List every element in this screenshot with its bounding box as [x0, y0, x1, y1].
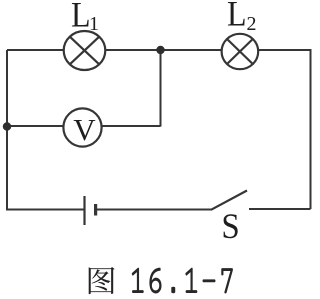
svg-text:2: 2	[247, 13, 257, 35]
battery cell: short plate	[94, 204, 97, 216]
node B junction dot	[3, 122, 11, 130]
node A junction dot	[156, 46, 164, 54]
wire right rail	[310, 49, 312, 209]
lamp L2	[222, 34, 259, 69]
voltmeter V	[63, 108, 101, 146]
wire: switch pivot to battery	[97, 209, 212, 211]
wire bottom-left: battery to left rail	[6, 209, 84, 211]
switch S arm	[211, 191, 247, 210]
svg-text:S: S	[221, 207, 239, 247]
wire mid riser: node A down to voltmeter branch	[160, 50, 162, 127]
svg-text:V: V	[73, 112, 96, 147]
wire: left rail to voltmeter	[7, 125, 64, 127]
wire: voltmeter to mid riser	[102, 125, 161, 127]
lamp L1	[64, 31, 106, 70]
wire top-left: left rail to L1	[7, 49, 64, 51]
svg-text:L: L	[71, 0, 91, 35]
battery cell: long plate	[83, 196, 85, 225]
wire bottom-right: right rail to switch contact	[249, 208, 311, 210]
wire: L2 to top-right corner	[258, 49, 312, 51]
wire left rail	[6, 50, 8, 210]
caption text 16.1-7	[132, 268, 233, 294]
caption character 图	[89, 267, 115, 294]
svg-text:L: L	[227, 0, 247, 34]
wire: L1 to node A to L2	[105, 49, 222, 51]
svg-text:1: 1	[89, 13, 99, 35]
